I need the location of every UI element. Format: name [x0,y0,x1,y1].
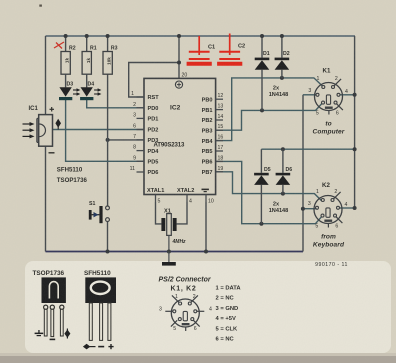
wire R3/S1 column [107,74,109,206]
wire left supply rail (to IC1 +) [45,36,47,115]
resistor R2 [61,34,76,87]
ground symbol below rail [162,252,176,266]
IR receiver IC1 [29,106,53,146]
IC2 right pin stubs [216,99,223,172]
wire PB6 to K2 pin5 [216,161,322,223]
wire PD3 to R3/S1 column [108,139,144,141]
IC2 bottom pin stubs and numbers [156,195,207,203]
junction D6 top line [281,147,285,151]
PS/2 connector pin diagram [165,295,204,331]
SFH pin2 minus mark [98,346,104,348]
wire +5V top rail [46,35,356,37]
diode D1 [255,34,270,110]
IC1 plus terminal mark [50,107,55,112]
diode D2 [275,34,290,78]
diode D6 [276,149,293,193]
resistor R3 [103,34,118,74]
wire K2 pin3 lead [303,208,317,210]
junction D2 anode [280,76,284,80]
SFH pin1 output diamond mark [83,344,96,350]
bottom page edge shading [0,356,396,363]
wire PB7 to K2 pin1 [216,172,322,201]
junction S1 ground [106,250,110,254]
wire PD2 from IC1 output [53,129,145,131]
capacitor C2 (red hand-drawn) [217,34,242,64]
PS/2 diagram pin numbers [159,294,212,332]
crystal X1 [161,209,186,246]
wire crystal center to ground rail [168,235,170,251]
resistor R1 [82,34,97,87]
SFH pin3 plus mark [108,344,113,349]
LED D4 [80,82,101,101]
junction D1 anode [260,108,264,112]
wire IC2 pin20 supply column [178,36,180,78]
IC1 minus terminal mark [49,152,55,154]
TSOP pin1 ground mark [35,330,44,336]
package drawing SFH5110 [84,270,116,340]
wire K1 pin3 lead [303,94,316,96]
wire PB4 to K1 pin1 [216,78,323,141]
K1 pin numbers [308,76,348,117]
TSOP pin2 minus mark [50,339,56,341]
junction PD3 column [106,138,110,142]
junction RST column [177,61,181,65]
wire S1 to ground rail [107,221,109,251]
junction pin20 at rail [177,34,181,38]
wire D5 D6 cathodes to +5V rail [261,148,354,150]
IC2 right pin numbers [218,93,224,172]
IC2 left pin labels [148,95,160,176]
white info panel [25,261,391,353]
wire K2 pin4 to +5V rail [339,207,354,209]
junction K1 pin4 rail [353,93,357,97]
wire right +5V vertical rail [354,36,356,208]
wire PB3 to K1 pin5 [216,104,322,131]
package drawing TSOP1736 [33,270,66,337]
paper speck top [39,5,42,7]
junction at rail for D5D6 line [353,147,357,151]
wire PD0 from D4 [87,100,144,108]
wire K1 pin4 to +5V rail [340,94,355,96]
K2 pin numbers [308,189,348,230]
microcontroller IC2 AT90S2313 [144,73,216,195]
junction K2 pin3 / ground riser [301,207,305,211]
junction D5 anode [259,222,263,226]
wire IC1 minus to ground rail [45,146,47,251]
wire bottom ground rail [46,251,304,253]
IC2 left pin numbers [130,91,137,172]
IR arrows into IC1 [23,122,35,138]
IC1 output arrow (diamond) [55,119,61,130]
capacitor C1 (red hand-drawn) [187,36,212,64]
wire IC2 pin10 to ground rail [205,202,207,252]
wire PD5 from D3 [66,100,144,162]
IC2 left pin stubs [137,97,145,172]
IC2 right pin labels [202,97,214,176]
TSOP pin3 output diamond mark [64,329,70,339]
red cross-out mark over R2 [54,42,64,49]
crystal X1 wiring [156,202,188,224]
diode D5 [254,149,271,224]
PS/2 pin legend text [216,286,242,343]
junction D6 anode [281,192,285,196]
wire ground riser to K1 pin3 [302,95,304,252]
wire RST pull-up [129,63,179,98]
junction pin10 ground [204,250,208,254]
pushbutton S1 [89,201,110,223]
IC2 internal ground glyph near pin10 [202,189,209,193]
junction K2 pin4 rail [353,206,357,210]
LED D3 [59,82,80,101]
junction crystal ground [167,250,171,254]
paper grain overlay [0,0,1,1]
